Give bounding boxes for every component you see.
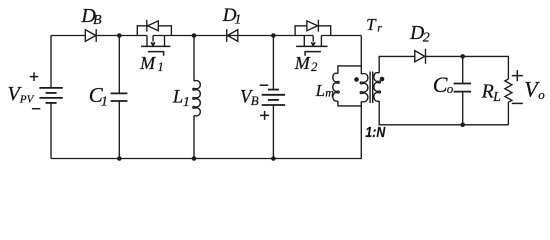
plus sign VB [260,111,269,120]
svg-text:L: L [315,81,325,100]
svg-text:B: B [251,93,259,108]
node dot C1 bottom [117,156,122,161]
wire VB branch bottom [272,105,274,159]
minus sign VB [260,84,269,86]
wire L1 branch bottom [193,116,195,159]
wire top rail M2 to transformer corner [321,35,361,37]
wire left branch bottom [50,103,52,159]
svg-text:1: 1 [183,95,190,110]
svg-text:M: M [294,53,311,73]
node dot VB top [271,33,276,38]
svg-text:1:N: 1:N [365,124,386,141]
svg-text:B: B [93,13,102,28]
node dot L1 top [192,33,197,38]
wire primary to bottom rail [360,102,362,159]
node dot Co bottom [460,123,465,128]
battery VPV [39,88,62,103]
wire RL bottom [507,102,509,125]
node dot L1 bottom [192,156,197,161]
node dot C1 top [117,33,122,38]
diode D1 [227,29,238,42]
svg-text:T: T [366,15,377,34]
mosfet M1 arrow head [151,42,155,46]
mosfet M2 [304,36,321,47]
wire secondary top [379,56,415,73]
mosfet M1 antiparallel diode [147,20,159,32]
wire secondary top rail right [426,56,509,79]
wire top rail M1 arrow to M2 arrow [153,35,313,37]
wire top rail left segment [51,35,85,37]
wire Co branch top [462,56,464,83]
svg-text:o: o [538,87,545,102]
svg-text:1: 1 [234,12,241,27]
inductor Lm [333,73,339,101]
wire left branch top [50,36,52,88]
transformer primary polarity dot [354,77,359,82]
wire Co branch bottom [462,92,464,125]
transformer secondary polarity dot [380,77,385,82]
wire Lm top branch [338,66,361,74]
svg-text:r: r [377,20,382,34]
transformer Tr primary winding [360,74,368,102]
minus sign Vo [512,102,523,104]
svg-text:PV: PV [19,94,35,106]
transformer Tr core [370,72,373,104]
svg-text:2: 2 [311,60,317,74]
diode DB [85,29,96,42]
mosfet M2 antiparallel diode [307,20,319,32]
battery VB [262,90,285,105]
svg-text:o: o [447,81,454,96]
resistor RL [505,79,512,102]
svg-text:R: R [481,81,494,103]
capacitor Co [454,84,472,92]
mosfet M2 diode loop [295,26,331,36]
wire L1 branch top [193,36,195,82]
transformer Tr secondary winding [374,73,381,102]
diode D2 [415,49,426,64]
svg-text:L: L [492,90,501,105]
svg-text:L: L [172,88,183,108]
inductor L1 [193,81,201,116]
svg-text:1: 1 [158,60,164,74]
minus sign VPV [32,108,40,110]
wire C1 branch top [118,36,120,94]
wire Lm bottom branch [338,101,361,106]
node dot Co top [460,54,465,59]
node dot VB bottom [271,156,276,161]
wire transformer primary drop [360,36,362,75]
wire C1 branch bottom [118,101,120,159]
plus sign VPV [30,72,38,81]
mosfet M2 arrow head [311,42,315,46]
mosfet M1 diode loop [137,26,171,36]
svg-text:1: 1 [101,95,108,110]
plus sign Vo [512,70,523,81]
mosfet M1 [147,36,165,47]
wire secondary bottom rail [379,101,508,125]
svg-text:m: m [325,86,334,100]
wire bottom rail [51,158,362,160]
wire VB branch top [272,36,274,90]
svg-text:M: M [139,53,156,73]
svg-text:C: C [433,72,448,97]
wire top rail DB to M1 [96,35,147,37]
svg-text:2: 2 [423,31,430,46]
capacitor C1 [111,93,128,101]
